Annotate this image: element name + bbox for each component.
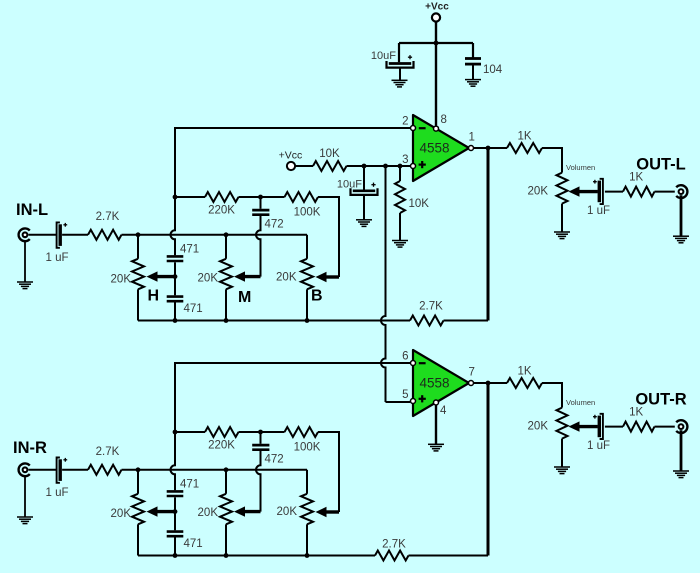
resistor 2.7K feedback R <box>375 539 488 561</box>
pin 3 label <box>402 154 408 166</box>
wire feedback row L <box>138 320 410 322</box>
potentiometer 20K B R <box>277 470 313 556</box>
node H wiper junction <box>173 274 178 279</box>
svg-text:1: 1 <box>469 132 475 144</box>
resistor 220K L <box>175 192 285 217</box>
resistor 1K to jack L <box>605 171 675 196</box>
wire feedback row R <box>138 555 375 557</box>
svg-text:+Vcc: +Vcc <box>279 150 303 162</box>
svg-text:2.7K: 2.7K <box>96 211 120 223</box>
potentiometer 20K B <box>276 235 313 321</box>
wire feedback L vertical <box>487 148 490 321</box>
svg-text:IN-R: IN-R <box>13 439 47 457</box>
svg-text:Volumen: Volumen <box>566 163 595 172</box>
svg-text:+Vcc: +Vcc <box>425 2 449 13</box>
node input row/M pot R <box>224 467 229 472</box>
svg-text:10uF: 10uF <box>371 50 396 62</box>
potentiometer 20K M R <box>198 470 232 556</box>
node input row/H pot <box>136 232 141 237</box>
svg-text:3: 3 <box>402 154 408 166</box>
svg-text:100K: 100K <box>294 207 321 219</box>
node feedback/M pot <box>224 318 229 323</box>
resistor 2.7K input R <box>62 446 307 475</box>
capacitor 471 upper L <box>167 244 199 262</box>
node feedback/H pot chain R <box>173 553 178 558</box>
wire pin 7 output <box>474 382 507 384</box>
capacitor 10uF supply bypass <box>371 50 414 80</box>
wire Vcc vertical to pin 8 <box>435 21 437 125</box>
node input row/M pot <box>224 232 229 237</box>
wire jack to cap IN-R <box>29 469 57 471</box>
ground under 10uF <box>392 80 408 87</box>
svg-text:10K: 10K <box>409 198 430 210</box>
svg-text:100K: 100K <box>294 442 321 454</box>
svg-text:471: 471 <box>184 303 203 315</box>
svg-text:220K: 220K <box>208 205 235 217</box>
wire rail to bypass 10uF <box>398 43 400 62</box>
svg-text:20K: 20K <box>528 421 549 433</box>
svg-text:1 uF: 1 uF <box>45 487 68 499</box>
ground under jack OUT-L <box>673 236 689 243</box>
pin 7 label <box>469 367 475 379</box>
wire H chain R (hops input row) <box>171 432 176 490</box>
capacitor 1uF output R <box>587 414 610 452</box>
node input row/H pot R <box>136 467 141 472</box>
svg-text:471: 471 <box>184 538 203 550</box>
node feedback/B pot R <box>305 553 310 558</box>
capacitor 1uF input L <box>45 222 68 264</box>
resistor 100K L <box>285 192 340 277</box>
ground under jack IN-R <box>17 517 33 524</box>
svg-text:6: 6 <box>402 351 408 363</box>
node bias/10K <box>398 164 403 169</box>
node 220K row junction R <box>173 430 178 435</box>
pin 2 label <box>402 116 408 128</box>
node feedback/B pot <box>305 318 310 323</box>
svg-text:M: M <box>238 289 251 306</box>
ground under pin 4 <box>428 444 444 451</box>
potentiometer 20K M <box>198 235 232 321</box>
label H <box>148 288 160 305</box>
op-amp U1 4558 (left channel) <box>411 115 474 181</box>
ground under bias 10uF <box>356 220 372 227</box>
connector jack OUT-R <box>676 420 687 471</box>
pin 6 label <box>402 351 408 363</box>
node 220K/100K/472 <box>258 195 263 200</box>
pin 1 label <box>469 132 475 144</box>
connector jack IN-R <box>19 463 30 516</box>
label M <box>238 289 251 306</box>
svg-text:5: 5 <box>402 389 408 401</box>
svg-text:OUT-L: OUT-L <box>636 156 686 174</box>
wire pin 6 to tone network <box>175 363 410 432</box>
wire bias line to pin 5 (hops over crossings) <box>381 166 410 402</box>
svg-text:20K: 20K <box>277 506 298 518</box>
pin 4 label <box>440 405 447 417</box>
ground under volume pot R <box>554 467 570 474</box>
resistor 100K R <box>285 427 340 512</box>
wire pin 2 to tone network <box>175 128 410 197</box>
svg-text:Volumen: Volumen <box>566 398 595 407</box>
svg-text:1 uF: 1 uF <box>587 205 610 217</box>
wiper arrow B pot L <box>316 272 340 282</box>
svg-text:1 uF: 1 uF <box>45 252 68 264</box>
svg-text:20K: 20K <box>276 272 297 284</box>
connector jack IN-L <box>19 228 30 281</box>
resistor 2.7K input L <box>62 211 307 240</box>
resistor 1K to jack R <box>605 406 675 431</box>
svg-text:471: 471 <box>180 479 199 491</box>
wiper arrow H pot R <box>147 506 176 516</box>
svg-text:B: B <box>311 288 323 305</box>
wire feedback R vertical <box>487 383 490 556</box>
svg-text:20K: 20K <box>111 274 132 286</box>
node output/feedback L <box>486 146 491 151</box>
node bias/10uF <box>362 164 367 169</box>
wiper arrow M pot R <box>234 506 261 516</box>
wire 471 to feedback row <box>174 303 176 321</box>
wire 472 to M wiper (hops input row) <box>256 215 261 277</box>
wire between 471 caps R <box>174 497 176 530</box>
node feedback/M pot R <box>224 553 229 558</box>
wire H chain (hops input row) <box>171 197 176 255</box>
op-amp U2 4558 (right channel) <box>411 350 474 416</box>
wire supply rail <box>399 42 473 44</box>
potentiometer 20K Volumen R <box>528 398 598 467</box>
node 220K/100K/472 R <box>258 430 263 435</box>
svg-text:2: 2 <box>402 116 408 128</box>
potentiometer 20K H <box>111 235 144 321</box>
resistor 10K to ground <box>395 166 429 240</box>
node supply rail junction <box>434 41 439 46</box>
node output/feedback R <box>486 381 491 386</box>
svg-text:10K: 10K <box>319 148 340 160</box>
svg-text:H: H <box>148 288 160 305</box>
svg-text:10uF: 10uF <box>337 179 362 191</box>
pin 8 label <box>441 114 447 126</box>
node H wiper junction R <box>173 509 178 514</box>
svg-text:1K: 1K <box>517 366 531 378</box>
ground under 104 <box>465 80 481 87</box>
capacitor 10uF bias <box>337 166 378 220</box>
svg-text:4558: 4558 <box>419 376 449 391</box>
resistor 10K bias <box>295 148 410 171</box>
wiper arrow H pot L <box>147 271 176 281</box>
wire 471 to feedback row R <box>174 538 176 556</box>
svg-text:1 uF: 1 uF <box>587 440 610 452</box>
capacitor 471 lower R <box>167 532 203 550</box>
capacitor 471 lower L <box>167 297 203 315</box>
resistor 2.7K feedback L <box>410 301 488 326</box>
wire 472 to M wiper R (hops input row) <box>256 450 261 512</box>
svg-text:2.7K: 2.7K <box>96 446 120 458</box>
svg-text:20K: 20K <box>528 186 549 198</box>
wire pin 4 to ground <box>435 405 437 444</box>
svg-text:20K: 20K <box>198 507 219 519</box>
ground under jack OUT-R <box>673 471 689 478</box>
svg-text:2.7K: 2.7K <box>382 539 406 551</box>
power terminal +Vcc <box>425 2 449 22</box>
capacitor 1uF output L <box>587 179 610 217</box>
capacitor 471 upper R <box>167 479 199 497</box>
svg-text:1K: 1K <box>517 131 531 143</box>
svg-text:7: 7 <box>469 367 475 379</box>
pin 5 label <box>402 389 408 401</box>
resistor 1K output L <box>507 131 562 173</box>
label OUT-L <box>636 156 686 174</box>
resistor 1K output R <box>507 366 562 408</box>
label IN-L <box>16 201 48 219</box>
ground under jack IN-L <box>17 282 33 289</box>
resistor 220K R <box>175 427 285 452</box>
wire between 471 caps <box>174 262 176 295</box>
connector jack OUT-L <box>676 185 687 236</box>
svg-text:8: 8 <box>441 114 447 126</box>
svg-text:472: 472 <box>265 219 284 231</box>
wire jack to cap IN-L <box>29 234 57 236</box>
potentiometer 20K H R <box>111 470 144 556</box>
wiper arrow M pot L <box>234 271 261 281</box>
label B <box>311 288 323 305</box>
svg-text:4: 4 <box>440 405 447 417</box>
capacitor 472 L <box>252 197 283 231</box>
node feedback/H pot chain <box>173 318 178 323</box>
svg-text:20K: 20K <box>111 508 132 520</box>
svg-text:20K: 20K <box>198 273 219 285</box>
svg-text:472: 472 <box>265 454 284 466</box>
svg-text:471: 471 <box>180 244 199 256</box>
ground under 10K <box>392 241 408 248</box>
svg-text:OUT-R: OUT-R <box>635 391 686 409</box>
wire rail to bypass 104 <box>472 43 474 58</box>
svg-text:104: 104 <box>483 64 503 76</box>
svg-text:220K: 220K <box>208 440 235 452</box>
node bias line tap <box>383 164 388 169</box>
wiper arrow B pot R <box>316 507 340 517</box>
node 220K row junction <box>173 195 178 200</box>
capacitor 104 supply bypass <box>465 59 503 80</box>
svg-text:IN-L: IN-L <box>16 201 48 219</box>
power terminal +Vcc bias <box>279 150 303 171</box>
ground under volume pot L <box>554 232 570 239</box>
svg-text:4558: 4558 <box>419 141 449 156</box>
wire pin 1 output <box>474 147 507 149</box>
potentiometer 20K Volumen L <box>528 163 598 232</box>
capacitor 1uF input R <box>45 458 68 500</box>
label IN-R <box>13 439 47 457</box>
label OUT-R <box>635 391 686 409</box>
svg-text:2.7K: 2.7K <box>419 301 443 313</box>
capacitor 472 R <box>252 432 283 466</box>
